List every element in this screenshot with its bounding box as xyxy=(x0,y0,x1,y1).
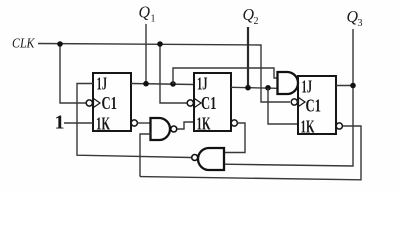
wire CLK branch to FF2 C1 xyxy=(160,44,187,103)
svg-text:CLK: CLK xyxy=(12,37,35,52)
svg-text:Q: Q xyxy=(243,5,255,24)
flip-flop U3 box xyxy=(298,76,336,134)
wire CLK main horizontal then down to FF3 clock xyxy=(38,44,290,103)
svg-text:1J: 1J xyxy=(97,74,108,94)
wire Q1 vertical to label xyxy=(145,24,147,84)
wire U2 Qbar to NAND2 top input xyxy=(224,123,245,153)
svg-text:C1: C1 xyxy=(102,93,118,113)
NAND gate G2 body mirrored xyxy=(198,148,224,170)
dynamic input triangle U3 xyxy=(299,98,306,107)
NAND gate G1 output bubble xyxy=(171,126,177,132)
wire G1 lower input from bottom feedback xyxy=(140,134,151,177)
junction dot Q2 branch to U3 1K xyxy=(265,85,271,91)
AND gate G3 body xyxy=(278,72,299,94)
wire Q2 branch down to U3 1K xyxy=(268,88,298,124)
wire U1 Q output to U2 1J xyxy=(131,84,194,85)
svg-text:3: 3 xyxy=(358,18,363,29)
junction dot Q2 line xyxy=(245,85,251,91)
junction dot Q1 line xyxy=(143,81,149,87)
output bubble U1 Qbar xyxy=(131,120,137,126)
wire U2 Q output to AND gate G3 lower input xyxy=(231,87,278,88)
clock bubble U2 xyxy=(187,100,193,106)
wire U3 Qbar bottom feedback to G1 lower input xyxy=(140,126,361,180)
svg-text:1K: 1K xyxy=(96,114,110,134)
flip-flop U2 box xyxy=(194,73,231,131)
junction dot CLK-FF2 xyxy=(157,41,163,47)
wire CLK branch to FF1 C1 xyxy=(60,44,86,103)
svg-text:1K: 1K xyxy=(301,117,315,137)
clock bubble U3 xyxy=(291,99,297,105)
svg-text:1K: 1K xyxy=(197,114,211,134)
clock bubble U1 xyxy=(86,100,92,106)
junction dot Q3 line xyxy=(350,83,356,89)
wire NAND2 output to U1 1J feedback xyxy=(77,84,191,158)
NAND gate G2 output bubble xyxy=(192,155,198,161)
wire U3 Q output to Q3 node xyxy=(336,85,353,87)
dynamic input triangle U2 xyxy=(195,99,202,108)
svg-text:1J: 1J xyxy=(302,77,313,97)
svg-text:Q: Q xyxy=(347,7,359,26)
wire Q1 over U2 to AND gate G3 top input xyxy=(173,68,278,84)
svg-text:2: 2 xyxy=(254,16,259,27)
wire G1 output to U2 1K xyxy=(177,122,194,129)
NAND gate G1 body xyxy=(151,118,171,140)
svg-text:Q: Q xyxy=(139,3,151,22)
svg-text:1J: 1J xyxy=(197,74,208,94)
svg-text:C1: C1 xyxy=(201,93,217,113)
junction dot Q1 branch to AND gate xyxy=(170,81,176,87)
flip-flop U1 box xyxy=(93,73,131,131)
wire 1 to U1 1K xyxy=(64,122,93,124)
dynamic input triangle U1 xyxy=(94,99,101,108)
junction dot CLK-FF1 xyxy=(57,41,63,47)
output bubble U2 Qbar xyxy=(231,120,237,126)
wire Q2 vertical to label xyxy=(247,27,249,88)
wire U1 Qbar to NAND1 top input xyxy=(138,122,151,124)
svg-text:C1: C1 xyxy=(306,96,322,116)
svg-text:1: 1 xyxy=(151,14,156,25)
wire Q3 vertical down to NAND2 lower input xyxy=(224,29,353,166)
output bubble U3 Qbar xyxy=(336,123,342,129)
svg-text:1: 1 xyxy=(55,112,65,134)
